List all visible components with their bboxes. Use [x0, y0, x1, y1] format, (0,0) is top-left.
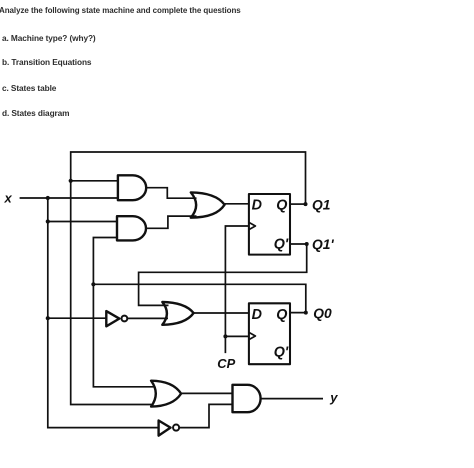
svg-text:y: y: [329, 390, 338, 405]
svg-text:x: x: [4, 191, 13, 206]
svg-text:Q0: Q0: [313, 306, 332, 321]
svg-text:Q1: Q1: [312, 197, 330, 212]
svg-text:Q': Q': [274, 236, 289, 252]
svg-text:D: D: [252, 198, 262, 214]
svg-text:Q: Q: [276, 198, 287, 214]
svg-text:CP: CP: [217, 356, 235, 371]
svg-text:Q: Q: [276, 307, 287, 323]
svg-text:D: D: [252, 307, 262, 323]
svg-text:Q': Q': [274, 345, 289, 361]
svg-text:Q1': Q1': [312, 237, 334, 252]
